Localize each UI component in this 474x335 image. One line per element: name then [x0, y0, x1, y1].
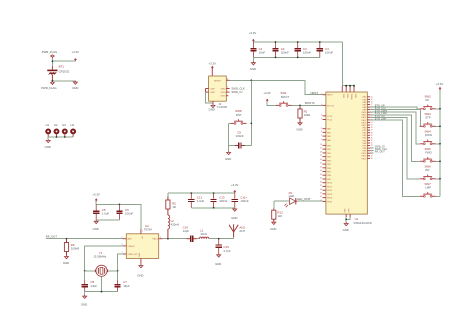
svg-text:PA6: PA6	[363, 101, 366, 104]
svg-text:GND: GND	[137, 273, 143, 277]
capacitor C9 100nF	[229, 131, 252, 149]
svg-text:4: 4	[321, 93, 322, 95]
svg-text:31: 31	[320, 163, 322, 165]
svg-text:SWD_IO: SWD_IO	[231, 90, 243, 94]
svg-text:PB10: PB10	[327, 183, 333, 185]
svg-text:4: 4	[321, 138, 322, 140]
wire LED_STAT	[297, 200, 322, 202]
wire NRST run	[230, 80, 323, 94]
capacitor C7 14pF	[115, 280, 131, 292]
wire xtal left link	[85, 270, 96, 272]
svg-text:34: 34	[320, 174, 322, 176]
svg-text:PA9: PA9	[363, 109, 366, 112]
pushbutton SW4 DWN	[420, 130, 436, 145]
svg-text:4: 4	[321, 114, 322, 116]
svg-text:38: 38	[371, 158, 373, 160]
capacitor C15 4.7pF	[216, 239, 231, 254]
svg-text:1k0: 1k0	[277, 214, 282, 218]
wire +3.3V rail (top)	[253, 41, 342, 43]
inductor L2 420nH	[168, 213, 179, 239]
svg-text:4.7pF: 4.7pF	[223, 249, 231, 253]
junction C2 bottom	[275, 57, 277, 59]
ground (U1)	[343, 222, 349, 232]
wire boot left	[267, 102, 275, 106]
svg-text:PB15: PB15	[327, 201, 333, 203]
svg-text:40: 40	[320, 196, 322, 198]
wire SW5 to rail	[436, 160, 440, 162]
net label BTN_INT	[375, 115, 386, 118]
capacitor C13 100nF	[211, 193, 228, 208]
capacitor C5 1.0uF	[93, 204, 109, 220]
svg-text:VSS: VSS	[348, 208, 350, 213]
svg-text:ASK: ASK	[128, 238, 133, 241]
svg-text:10uF: 10uF	[259, 51, 266, 55]
wire ASK line	[46, 238, 123, 240]
svg-text:100nF: 100nF	[219, 199, 227, 203]
svg-text:SWC: SWC	[220, 88, 226, 90]
junction C6 top	[119, 204, 121, 206]
svg-text:32: 32	[320, 166, 322, 168]
capacitor C1 10uF	[250, 42, 265, 57]
junction C13 bottom	[213, 207, 215, 209]
power flag net PWR_FLAG (bottom)	[41, 82, 56, 91]
svg-text:PWR_FLAG: PWR_FLAG	[41, 86, 56, 90]
supply +3.3V (J1)	[209, 62, 217, 76]
junction rail SW5	[439, 160, 441, 162]
crystal Y1 13.56MHz	[93, 251, 107, 276]
wire VDD feed to U1	[342, 42, 344, 86]
svg-text:RESET: RESET	[214, 80, 222, 82]
pin J1 SWO	[226, 95, 228, 97]
ground (PA caps)	[231, 208, 237, 220]
wire SW7 route	[370, 120, 420, 196]
ground (R1)	[296, 122, 302, 132]
ground (cap bank)	[250, 57, 256, 71]
MCU U1 body	[326, 92, 367, 214]
svg-text:LED: LED	[289, 194, 295, 198]
junction rail SW6	[439, 178, 441, 180]
wire J1 gnd tie	[206, 89, 214, 104]
svg-text:PA7: PA7	[363, 103, 366, 106]
svg-text:1R: 1R	[172, 205, 176, 209]
svg-text:GND: GND	[72, 86, 78, 90]
svg-text:SWD: SWD	[220, 92, 226, 94]
resistor R6 100k	[64, 239, 79, 256]
wire SW3 to rail	[436, 125, 440, 127]
svg-text:2: 2	[142, 230, 143, 232]
net label RF_OUT (input)	[46, 235, 57, 239]
MCU name U1	[353, 217, 372, 225]
svg-text:1.0uF: 1.0uF	[102, 212, 110, 216]
wire SW5 route	[370, 115, 420, 162]
svg-text:PWR_FLAG: PWR_FLAG	[42, 50, 57, 54]
power flag net PWR_FLAG (top)	[42, 50, 57, 58]
svg-text:28: 28	[320, 152, 322, 154]
svg-text:2: 2	[227, 90, 228, 92]
net label NRST	[311, 91, 319, 95]
svg-text:4: 4	[227, 87, 228, 89]
net label BTN_STP	[375, 107, 387, 110]
ground (battery)	[72, 81, 78, 90]
junction VDD pins	[345, 85, 355, 87]
junction hole bus H3	[64, 136, 66, 138]
ground (xtal)	[81, 292, 87, 307]
ground (R6)	[63, 255, 69, 265]
svg-text:+3.3V: +3.3V	[72, 50, 80, 54]
svg-text:VDD: VDD	[354, 94, 356, 99]
svg-text:6: 6	[227, 78, 228, 80]
junction xtal right	[117, 270, 119, 272]
svg-text:RF_OUT: RF_OUT	[375, 151, 385, 154]
svg-text:PA12: PA12	[362, 116, 366, 119]
junction C3 bottom	[297, 57, 299, 59]
svg-text:27: 27	[320, 148, 322, 150]
wire VSS tie	[346, 217, 350, 222]
svg-text:100nF: 100nF	[281, 51, 289, 55]
junction xtal case	[101, 291, 103, 293]
svg-text:PB13: PB13	[327, 194, 333, 196]
supply +3.3V (U2)	[92, 192, 100, 204]
wire LED to R12	[273, 201, 275, 208]
svg-text:GND: GND	[250, 67, 256, 71]
net label SWD_IO (U1)	[370, 146, 385, 149]
antenna AN1	[229, 224, 245, 237]
svg-text:PB12: PB12	[327, 190, 333, 192]
svg-text:100nF: 100nF	[325, 51, 333, 55]
net label SWD_CLK	[231, 87, 245, 91]
svg-text:1.0uF: 1.0uF	[197, 199, 205, 203]
connector J1 TC2030	[209, 76, 228, 109]
pushbutton SW6 INT	[420, 165, 436, 180]
net label BTN_FWD	[375, 112, 387, 115]
junction VSS	[345, 219, 347, 221]
svg-text:PA14: PA14	[362, 121, 366, 124]
junction C13 top	[213, 192, 215, 194]
svg-text:XTAL/OUT: XTAL/OUT	[128, 253, 139, 256]
svg-text:GND: GND	[93, 227, 99, 231]
junction PA feed	[167, 238, 169, 240]
ground (J1)	[209, 104, 215, 111]
MCU U1 bottom VSS pins	[344, 208, 350, 217]
wire NRST down	[250, 80, 252, 145]
wire SW4 route	[370, 112, 420, 144]
svg-text:VDD: VDD	[342, 94, 344, 99]
MCU U1 top supply pins	[342, 86, 356, 100]
svg-text:GND: GND	[209, 108, 215, 112]
svg-text:GND: GND	[231, 216, 237, 220]
ground (mounting holes)	[45, 137, 51, 149]
pin J1 SWDCLK	[226, 87, 229, 89]
junction rail C2 top	[275, 41, 277, 43]
resistor R2 1R	[166, 197, 176, 213]
resistor R12 1k0	[272, 209, 283, 222]
junction rail SW2	[439, 108, 441, 110]
svg-text:+3.3V: +3.3V	[263, 91, 271, 95]
svg-text:420nH: 420nH	[171, 222, 180, 226]
junction rail C4 top	[319, 41, 321, 43]
pin U2 XTAL/OUT	[122, 252, 127, 254]
svg-text:NRST: NRST	[327, 95, 333, 97]
wire crystal case gnd	[101, 276, 103, 291]
svg-text:30: 30	[320, 159, 322, 161]
pushbutton SW7 LMP	[420, 182, 436, 197]
svg-text:+3.3V: +3.3V	[231, 183, 239, 187]
svg-text:H4: H4	[71, 123, 75, 127]
mounting hole H1	[45, 123, 51, 137]
junction rail SW3	[439, 125, 441, 127]
junction R6	[66, 238, 68, 240]
wire boot right	[292, 104, 323, 106]
svg-text:GND: GND	[296, 127, 302, 131]
pushbutton SW5 FWD	[420, 147, 436, 162]
net label BTN_UP	[375, 105, 385, 108]
svg-text:PA10: PA10	[362, 111, 366, 114]
svg-text:PA15: PA15	[362, 124, 366, 127]
wire PA top rail	[168, 192, 235, 194]
svg-text:ANT: ANT	[239, 229, 245, 233]
pin J1 GND bottom	[212, 101, 214, 104]
svg-text:13.56MHz: 13.56MHz	[93, 255, 107, 259]
wire SW3 route	[370, 110, 421, 127]
capacitor C6 100nF	[116, 204, 133, 220]
wire SW6 to rail	[436, 178, 440, 180]
capacitor C3 100nF	[295, 42, 312, 57]
wire SW6 route	[370, 117, 420, 178]
junction rail C3 top	[297, 41, 299, 43]
wire button rail	[439, 90, 441, 196]
wire SW2 route	[370, 107, 420, 109]
svg-text:GND: GND	[139, 252, 141, 257]
svg-text:VDD: VDD	[346, 94, 348, 99]
pin J1 SWDIO	[226, 90, 229, 92]
svg-text:FWD: FWD	[425, 151, 432, 155]
junction battery bottom	[52, 80, 54, 82]
pushbutton SW3 STP	[420, 112, 436, 127]
supply +3.3V (cap bank)	[249, 31, 257, 42]
svg-text:DWN: DWN	[425, 133, 432, 137]
resistor R1 10k	[298, 105, 310, 121]
wire mounting hole bus	[48, 136, 73, 138]
junction NRST/SW8	[250, 123, 252, 125]
svg-text:33: 33	[320, 170, 322, 172]
svg-text:RF_OUT: RF_OUT	[46, 235, 57, 239]
wire SW2 to rail	[436, 108, 440, 110]
svg-text:37: 37	[320, 185, 322, 187]
junction C12 top	[190, 192, 192, 194]
svg-text:BT1: BT1	[59, 65, 65, 69]
svg-text:39: 39	[320, 193, 322, 195]
pin U2 ASK	[122, 237, 127, 239]
transmitter U2 T5754 body	[126, 224, 158, 258]
junction NRST branch	[250, 79, 252, 81]
wire xtal/OUT node	[118, 254, 123, 280]
svg-text:4: 4	[321, 118, 322, 120]
svg-text:NRST: NRST	[311, 91, 319, 95]
svg-text:+3.3V: +3.3V	[92, 192, 100, 196]
svg-text:TC2030: TC2030	[217, 105, 228, 109]
pushbutton SW2 UP	[420, 95, 436, 110]
svg-text:H2: H2	[54, 123, 58, 127]
svg-text:29: 29	[320, 155, 322, 157]
mounting hole H3	[62, 123, 68, 137]
pin J1 GND pins	[206, 89, 209, 93]
svg-text:100nF: 100nF	[303, 51, 311, 55]
wire battery top node	[52, 58, 75, 66]
wire xtal bottom rail	[85, 291, 118, 293]
capacitor C2 100nF	[272, 42, 289, 57]
svg-text:36: 36	[320, 181, 322, 183]
supply +3.3V pin (battery top)	[72, 50, 80, 61]
capacitor C11 100uF	[232, 193, 249, 208]
svg-text:VDDA: VDDA	[350, 94, 353, 100]
svg-text:GND: GND	[343, 228, 349, 232]
svg-text:100nF: 100nF	[125, 212, 133, 216]
wire cap bank bottom	[253, 56, 319, 58]
svg-text:LED_STAT: LED_STAT	[297, 197, 311, 201]
svg-text:UP: UP	[425, 98, 429, 102]
net label BTN_LMP	[375, 117, 387, 120]
junction hole bus H2	[56, 136, 58, 138]
svg-text:GND: GND	[210, 88, 215, 90]
wire PAout node	[162, 238, 184, 240]
svg-text:6: 6	[122, 237, 123, 239]
svg-text:4: 4	[321, 135, 322, 137]
svg-text:GND: GND	[215, 262, 221, 266]
svg-text:12pF: 12pF	[183, 229, 190, 233]
svg-text:PA4: PA4	[363, 96, 366, 99]
svg-text:BOOT: BOOT	[281, 95, 289, 99]
svg-text:4: 4	[321, 127, 322, 129]
svg-text:STM32L031G6U6: STM32L031G6U6	[353, 223, 372, 225]
svg-text:4: 4	[321, 131, 322, 133]
svg-text:3: 3	[160, 237, 161, 239]
svg-text:10kR: 10kR	[304, 113, 311, 117]
ground (reset RC)	[225, 151, 231, 161]
wire C5-C6 bottom	[96, 219, 119, 221]
svg-text:U1: U1	[355, 217, 359, 221]
svg-text:PC14: PC14	[327, 116, 333, 118]
svg-text:GND: GND	[45, 145, 51, 149]
svg-text:T5754: T5754	[144, 228, 153, 232]
ground (R12)	[270, 221, 276, 231]
wire L1 to ant	[209, 237, 234, 239]
svg-text:26: 26	[320, 144, 322, 146]
junction xtal left	[84, 270, 86, 272]
supply +3.3V (buttons)	[436, 82, 444, 90]
svg-text:10nH: 10nH	[200, 232, 207, 236]
wire SW8 left	[229, 123, 231, 151]
mounting hole H4	[70, 123, 76, 137]
svg-text:PB14: PB14	[327, 198, 333, 200]
svg-text:+3.3V: +3.3V	[249, 31, 257, 35]
pin J1 RESET	[226, 78, 229, 80]
battery BT1 CR2032	[47, 65, 69, 81]
junction C15	[218, 238, 220, 240]
net label BTN_DWN	[375, 110, 388, 113]
wire xtal/B node	[85, 246, 123, 280]
pin U2 PAout	[159, 237, 163, 239]
svg-text:RST: RST	[236, 113, 242, 117]
junction BOOT0/R1	[299, 105, 301, 107]
junction battery top	[52, 60, 54, 62]
svg-text:PB12: PB12	[361, 158, 366, 160]
net label SWD_CLK (U1)	[370, 148, 387, 151]
net label BOOT0	[305, 101, 315, 105]
svg-text:+3.3V: +3.3V	[436, 82, 444, 86]
inductor L1 10nH	[199, 228, 208, 238]
svg-text:14pF: 14pF	[123, 284, 130, 288]
mounting hole H2	[54, 123, 60, 137]
wire PA caps bottom	[191, 207, 235, 209]
svg-text:GND: GND	[63, 261, 69, 265]
svg-text:BOOT0: BOOT0	[305, 101, 315, 105]
wire PA supply branch	[167, 193, 169, 200]
svg-text:38: 38	[320, 189, 322, 191]
pin U2 XTAL/B	[122, 244, 127, 246]
net label RF_OUT (U1)	[370, 151, 385, 154]
svg-text:BOOT0: BOOT0	[327, 105, 335, 107]
svg-text:GND: GND	[81, 302, 87, 306]
svg-text:INT: INT	[425, 168, 430, 172]
svg-text:100uF: 100uF	[240, 199, 248, 203]
svg-text:XTAL/B: XTAL/B	[128, 245, 136, 248]
wire battery bottom node	[52, 80, 75, 82]
svg-text:14pF: 14pF	[90, 284, 97, 288]
MCU U1 left pins	[320, 93, 335, 203]
ground (C5)	[93, 220, 99, 231]
LED D1	[274, 191, 298, 207]
svg-text:GND: GND	[270, 227, 276, 231]
MCU U1 right pins	[361, 96, 372, 161]
capacitor C4 100nF	[317, 42, 334, 57]
svg-text:100kR: 100kR	[71, 247, 79, 251]
capacitor C12 1.0uF	[188, 193, 204, 208]
svg-text:GND: GND	[210, 92, 215, 94]
svg-text:GND: GND	[225, 157, 231, 161]
svg-text:STP: STP	[425, 116, 431, 120]
wire U2 vdd rail	[96, 204, 141, 229]
net label LED_STAT	[297, 197, 311, 201]
ground (U2)	[137, 264, 143, 277]
capacitor C14 12pF	[183, 225, 200, 241]
svg-text:SWO: SWO	[220, 96, 226, 98]
svg-text:100nF: 100nF	[236, 134, 244, 138]
svg-text:LMP: LMP	[425, 186, 431, 190]
pin U2 top	[141, 229, 143, 234]
svg-text:35: 35	[320, 178, 322, 180]
junction rail SW4	[439, 143, 441, 145]
wire VDD link	[342, 85, 354, 87]
supply +3.3V (PA)	[231, 183, 239, 193]
pushbutton SW1 BOOT	[276, 91, 292, 106]
wire xtal right link	[108, 270, 118, 272]
supply +3.3V (BOOT0)	[263, 91, 271, 102]
svg-text:CR2032: CR2032	[59, 69, 70, 73]
wire SW4 to rail	[436, 143, 440, 145]
svg-text:PAout: PAout	[152, 238, 158, 241]
wire SW7 to rail	[436, 195, 440, 197]
pin U2 GND	[140, 258, 142, 264]
svg-text:VSS: VSS	[344, 208, 346, 213]
capacitor C8 14pF	[82, 280, 98, 292]
svg-text:H3: H3	[62, 123, 66, 127]
pushbutton SW8 RST	[231, 109, 247, 124]
svg-text:+3.3V: +3.3V	[209, 62, 217, 66]
svg-text:PC15: PC15	[327, 120, 333, 122]
svg-text:H1: H1	[46, 123, 50, 127]
svg-text:4: 4	[321, 104, 322, 106]
net label SWD_IO	[231, 90, 243, 94]
